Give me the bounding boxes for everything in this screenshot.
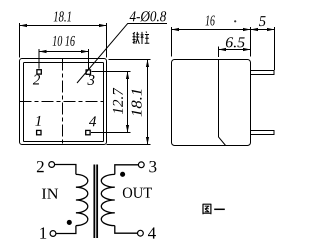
pin 2 pad — [37, 70, 41, 74]
side view top pin — [251, 71, 275, 75]
dimension text 18.1 vertical — [132, 90, 142, 117]
dimension text 18.1 top — [54, 11, 71, 21]
wire secondary to terminal 4 — [115, 226, 138, 234]
ink speck — [234, 20, 236, 22]
dimension 18.1 top — [20, 23, 107, 58]
terminal 3 label — [149, 161, 156, 172]
leader text 4-O0.8 — [130, 11, 167, 22]
dimension text 6.5 — [226, 37, 245, 47]
side view bottom pin — [251, 131, 275, 135]
terminal 2 label — [37, 161, 44, 172]
horizontal centerline — [20, 101, 105, 103]
terminal 3 circle — [138, 162, 144, 168]
dimension 10 16 — [39, 49, 89, 69]
leader line 4-O0.8 — [77, 24, 167, 84]
dimension 6.5 — [219, 47, 251, 58]
dimension text 5 — [259, 16, 266, 26]
pin 3 pad — [86, 70, 90, 74]
primary winding — [76, 174, 88, 225]
polarity dot primary — [67, 220, 72, 225]
top view body inner outline — [24, 63, 104, 142]
wire terminal 3 to secondary — [115, 165, 139, 175]
dimension 16 — [172, 27, 251, 57]
leader note tie zhu (CJK) — [133, 32, 150, 44]
dimension 5 — [251, 27, 275, 70]
pin 4 pad — [86, 130, 90, 134]
secondary winding — [101, 174, 115, 225]
dimension text 12.7 — [113, 88, 123, 114]
side view bobbin seam — [219, 60, 226, 146]
pin 3 number — [87, 75, 94, 85]
pin 1 pad — [37, 130, 41, 134]
terminal 1 label — [40, 227, 46, 238]
terminal 4 circle — [138, 230, 144, 236]
dimension 18.1 right vertical — [107, 60, 151, 145]
pin 4 number — [89, 116, 96, 126]
IN label — [42, 189, 58, 199]
figure label tu yi (CJK) — [203, 204, 225, 215]
dimension 12.7 right — [91, 72, 131, 133]
polarity dot secondary — [120, 172, 125, 177]
dimension text 16 — [205, 15, 214, 25]
side view body — [172, 60, 251, 146]
OUT label — [123, 188, 152, 198]
terminal 4 label — [148, 227, 156, 238]
core line left — [93, 165, 95, 239]
wire primary to terminal 1 — [56, 226, 76, 234]
dimension text 10 16 — [53, 36, 75, 46]
core line right — [96, 165, 98, 239]
pin 1 number — [35, 116, 40, 126]
vertical centerline — [62, 59, 64, 145]
wire terminal 2 to primary — [55, 165, 76, 175]
top view body outer outline — [20, 59, 107, 145]
pin 2 number — [33, 75, 40, 85]
terminal 1 circle — [50, 231, 56, 237]
transformer T1 terminal 2 circle — [49, 162, 55, 168]
